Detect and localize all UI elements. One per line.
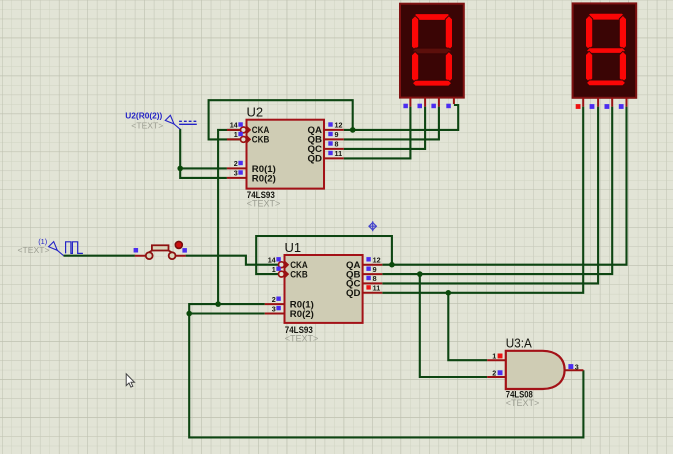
wire U2 QD (pin 11) to display DS1 pin 1 bbox=[344, 107, 411, 159]
wire clock source to button bbox=[64, 255, 135, 257]
svg-text:14: 14 bbox=[230, 121, 238, 130]
U2 pin 14 CKA bbox=[227, 121, 270, 135]
junction U1 QA row bbox=[389, 262, 395, 268]
wire U2 QA (pin 12) to display DS1 pin 4 bbox=[344, 105, 459, 130]
U1 pin 2 R0(1) bbox=[265, 295, 314, 310]
svg-text:2: 2 bbox=[272, 295, 276, 304]
net label (1) bbox=[38, 237, 47, 246]
U2 pin 12 QA bbox=[308, 121, 344, 135]
svg-text:<TEXT>: <TEXT> bbox=[131, 121, 163, 131]
junction U1 QB row bbox=[417, 271, 423, 277]
U1 pin 8 QC bbox=[346, 274, 382, 288]
DS2 pin 3 bbox=[605, 98, 613, 109]
U2 pin 9 QB bbox=[308, 130, 344, 144]
AND gate U3:A 74LS08 bbox=[506, 335, 565, 408]
U2 pin 11 QD bbox=[308, 149, 344, 163]
svg-text:12: 12 bbox=[373, 256, 381, 265]
DS1 pin 2 bbox=[418, 98, 426, 109]
U1 pin 1 CKB bbox=[272, 265, 308, 279]
svg-text:9: 9 bbox=[335, 130, 339, 139]
svg-text:QD: QD bbox=[346, 288, 361, 298]
wire U1 QA feedback to U1 CKB bbox=[256, 236, 392, 274]
U1 pin 12 QA bbox=[346, 256, 382, 270]
junction U2 QA row bbox=[350, 127, 356, 133]
svg-text:QC: QC bbox=[308, 144, 323, 154]
text placeholder of clock source bbox=[18, 245, 50, 255]
svg-text:<TEXT>: <TEXT> bbox=[18, 245, 50, 255]
U2 pin 2 R0(1) bbox=[227, 159, 276, 174]
svg-text:QB: QB bbox=[308, 135, 323, 145]
junction U1 QD row bbox=[446, 290, 452, 296]
junction U1 R0(2) branch bbox=[186, 311, 192, 317]
svg-text:<TEXT>: <TEXT> bbox=[506, 398, 540, 408]
svg-text:1: 1 bbox=[492, 352, 496, 361]
svg-text:R0(2): R0(2) bbox=[290, 309, 314, 319]
svg-text:3: 3 bbox=[272, 304, 276, 313]
DS2 pin 1 (red state square) bbox=[576, 98, 584, 109]
U1 pin 14 CKA bbox=[268, 256, 308, 270]
svg-text:QA: QA bbox=[308, 125, 323, 135]
origin marker (blue crosshair) bbox=[369, 221, 377, 231]
U1 pin 11 QD (red state square) bbox=[346, 284, 382, 298]
mouse cursor bbox=[126, 374, 134, 387]
svg-text:8: 8 bbox=[373, 274, 377, 283]
svg-text:3: 3 bbox=[575, 363, 579, 372]
svg-text:9: 9 bbox=[373, 265, 377, 274]
svg-text:R0(1): R0(1) bbox=[252, 164, 276, 174]
wire net tap to U2 R0(1) and R0(2) bbox=[180, 129, 227, 178]
wire U1 QD to U3:A pin 1 bbox=[448, 293, 487, 360]
svg-text:8: 8 bbox=[335, 140, 339, 149]
U1 pin 3 R0(2) bbox=[265, 304, 314, 319]
wire U2 QC (pin 8) to display DS1 pin 2 bbox=[344, 107, 425, 149]
junction U2 R0(1) tap bbox=[177, 166, 183, 172]
svg-text:<TEXT>: <TEXT> bbox=[247, 198, 281, 208]
svg-text:2: 2 bbox=[492, 368, 496, 377]
wire U1 QD (pin 11) to display DS2 pin 1 bbox=[382, 107, 583, 293]
wire U1 QC (pin 8) to display DS2 pin 2 bbox=[382, 107, 598, 284]
svg-text:U3:A: U3:A bbox=[506, 335, 532, 350]
svg-text:<TEXT>: <TEXT> bbox=[285, 334, 319, 344]
junction U1 R0(1) row bbox=[215, 301, 221, 307]
wire U1 R0 row up to U2 CKA bbox=[218, 130, 240, 304]
U2 pin 3 R0(2) bbox=[227, 169, 276, 184]
svg-text:R0(2): R0(2) bbox=[252, 173, 276, 183]
U1 pin 9 QB bbox=[346, 265, 382, 279]
7-segment display DS1 (showing 0) bbox=[400, 4, 464, 98]
svg-text:11: 11 bbox=[335, 149, 343, 158]
U3:A pin 1 (red state square) bbox=[487, 352, 506, 361]
IC U1 74LS93 bbox=[285, 240, 363, 344]
7-segment display DS2 (showing 8) bbox=[573, 3, 637, 97]
wire button to U1 CKA bbox=[186, 256, 279, 265]
wire U2 QB (pin 9) to display DS1 pin 3 bbox=[344, 107, 439, 140]
svg-text:CKA: CKA bbox=[252, 125, 270, 135]
wire branch to U1 R0(2) bbox=[189, 312, 265, 314]
wire U1 QB to U3:A pin 2 bbox=[420, 274, 487, 377]
DS1 pin 1 bbox=[403, 98, 410, 109]
svg-text:U1: U1 bbox=[285, 240, 302, 255]
U2 pin 1 CKB bbox=[227, 130, 270, 144]
svg-text:1: 1 bbox=[234, 130, 238, 139]
svg-text:2: 2 bbox=[234, 159, 238, 168]
wire U1 QA (pin 12) to display DS2 pin 4 bbox=[382, 107, 626, 265]
DS2 pin 4 bbox=[619, 98, 627, 109]
IC U2 74LS93 bbox=[247, 105, 325, 209]
svg-text:3: 3 bbox=[234, 169, 238, 178]
svg-text:1: 1 bbox=[272, 265, 276, 274]
svg-text:11: 11 bbox=[373, 284, 381, 293]
net label U2(R0(2)) with tap symbol bbox=[125, 112, 197, 131]
DS2 pin 2 bbox=[590, 98, 599, 109]
U3:A pin 3 output bbox=[565, 363, 584, 372]
DS1 pin 4 (jog to QA wire) bbox=[446, 98, 454, 109]
clock source DCLOCK with square wave symbol bbox=[49, 242, 83, 256]
svg-text:U2(R0(2)): U2(R0(2)) bbox=[125, 112, 162, 121]
svg-text:CKB: CKB bbox=[252, 135, 270, 145]
U3:A pin 2 bbox=[487, 368, 506, 377]
svg-text:CKB: CKB bbox=[290, 269, 308, 279]
svg-text:U2: U2 bbox=[247, 105, 264, 120]
svg-text:12: 12 bbox=[335, 121, 343, 130]
wire U1 QB (pin 9) to display DS2 pin 3 bbox=[382, 107, 612, 275]
U2 pin 8 QC bbox=[308, 140, 344, 154]
svg-text:14: 14 bbox=[268, 256, 276, 265]
push button (on clock wire) bbox=[134, 241, 187, 259]
svg-text:QD: QD bbox=[308, 154, 323, 164]
wire U3:A output reset loop to U1 R0(1) bbox=[189, 304, 583, 437]
wire U2 QA feedback to U2 CKB bbox=[209, 100, 353, 139]
DS1 pin 3 bbox=[431, 98, 439, 109]
